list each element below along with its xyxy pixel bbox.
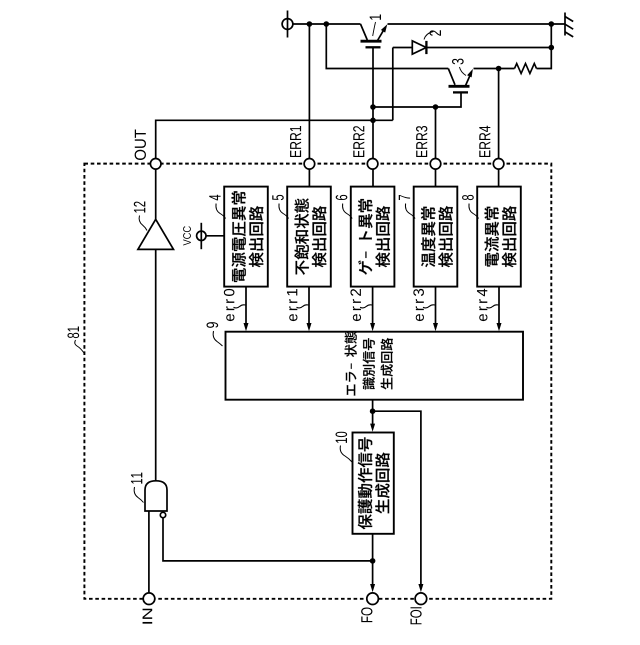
- label 9: [206, 322, 222, 346]
- resistor R: [515, 64, 537, 74]
- detection circuit block 5: [287, 187, 331, 287]
- label 8: [462, 195, 479, 219]
- VCC terminal: [197, 223, 206, 249]
- wire gate bus y107: [373, 92, 461, 107]
- error state block 9: [226, 332, 524, 400]
- label ERR3: [416, 126, 427, 157]
- wire err4 output: [498, 287, 500, 325]
- wire err1 output: [308, 287, 310, 325]
- node dot FO feedback: [370, 558, 376, 564]
- node dot block9 out: [370, 408, 376, 414]
- wire y120 horizontal to OUT: [156, 120, 393, 158]
- arrowhead err2: [370, 323, 375, 331]
- block 5 text: [294, 198, 326, 274]
- node dot rail-gate3: [324, 21, 330, 27]
- terminal ERR3: [430, 159, 441, 170]
- node dot gates y107: [370, 104, 376, 110]
- label err2: [350, 289, 372, 321]
- arrowhead err0: [244, 323, 249, 331]
- wire AND right input feedback: [163, 518, 373, 561]
- label 81: [67, 327, 84, 353]
- wire gate rail down + horizontal y68: [326, 24, 448, 69]
- label 5: [272, 195, 288, 219]
- arrowhead err1: [307, 323, 312, 331]
- node dot ERR4 tap: [496, 66, 502, 72]
- detection circuit block 7: [414, 187, 458, 287]
- transistor 1 (IGBT): [361, 24, 388, 47]
- wire diode anode down: [392, 48, 394, 121]
- label ERR1: [290, 126, 301, 157]
- label VCC: [183, 226, 191, 245]
- gate input bubble: [160, 512, 165, 517]
- terminal FO: [367, 593, 379, 605]
- terminal IN: [143, 593, 155, 605]
- wire ERR3 vertical: [435, 107, 437, 187]
- protection block 10: [353, 433, 394, 534]
- wire ERR4 vertical: [498, 69, 500, 188]
- label 11: [131, 473, 144, 503]
- ground symbol: [565, 13, 573, 37]
- node dot rail-ERR1: [307, 21, 313, 27]
- label FOI: [410, 607, 421, 624]
- wire top rail left: [293, 23, 361, 25]
- label err3: [413, 289, 435, 321]
- block 8 text: [485, 206, 517, 267]
- transistor 3 (IGBT): [448, 69, 473, 93]
- wire FO: [372, 534, 374, 586]
- diode 2: [393, 41, 552, 54]
- block 7 text: [421, 206, 453, 267]
- block 10 text: [358, 437, 390, 529]
- detection circuit block 6: [351, 187, 395, 287]
- power terminal P: [282, 11, 293, 38]
- wire top rail right: [388, 23, 566, 25]
- buffer 12 (triangle): [138, 219, 174, 249]
- wire OUT to buffer: [155, 169, 157, 219]
- wire gate1 down: [372, 47, 374, 187]
- label 2: [424, 30, 441, 39]
- label FO: [361, 607, 372, 622]
- terminal ERR2: [367, 159, 378, 170]
- arrowhead into block10: [370, 424, 375, 432]
- wire err2 output: [372, 287, 374, 325]
- wire ERR1 vertical: [308, 24, 310, 187]
- arrowhead err3: [433, 323, 438, 331]
- block 6 text: [358, 199, 390, 275]
- node dot diode-cathode: [549, 45, 555, 51]
- wire resistor to vertical: [537, 24, 552, 69]
- wire VCC to block4: [206, 235, 224, 237]
- dashed boundary box 81: [84, 164, 551, 599]
- label 12: [134, 202, 147, 231]
- label ERR2: [353, 126, 364, 157]
- label err4: [477, 289, 499, 321]
- block 4 text: [232, 191, 264, 282]
- block 9 text: [345, 332, 393, 396]
- wire emitter3 to resistor: [474, 68, 515, 70]
- label err1: [287, 289, 309, 321]
- wire AND left input to IN: [148, 511, 150, 593]
- terminal FOI: [415, 593, 427, 605]
- AND gate 11: [145, 481, 167, 511]
- wire block9 output: [372, 400, 374, 425]
- arrowhead FOI: [418, 584, 423, 592]
- detection circuit block 4: [224, 187, 268, 287]
- terminal ERR4: [493, 159, 504, 170]
- label 4: [209, 195, 225, 219]
- wire FOI branch: [373, 411, 421, 585]
- terminal OUT: [150, 159, 161, 170]
- node dot ERR3 tap: [433, 104, 439, 110]
- label 6: [336, 195, 353, 219]
- terminal ERR1: [304, 159, 315, 170]
- wire err3 output: [435, 287, 437, 325]
- node dot rail-right: [549, 21, 555, 27]
- label err0: [224, 289, 246, 321]
- detection circuit block 8: [477, 187, 521, 287]
- node dot y120: [370, 118, 376, 124]
- arrowhead err4: [497, 323, 502, 331]
- label 7: [399, 195, 415, 219]
- wire buffer to AND gate: [155, 249, 157, 481]
- label 10: [335, 432, 352, 462]
- label 1: [370, 14, 381, 36]
- wire err0 output: [245, 287, 247, 325]
- arrowhead FO: [370, 584, 375, 592]
- label IN: [143, 609, 153, 624]
- label ERR4: [479, 126, 490, 157]
- label 3: [452, 59, 466, 76]
- label OUT: [135, 129, 146, 159]
